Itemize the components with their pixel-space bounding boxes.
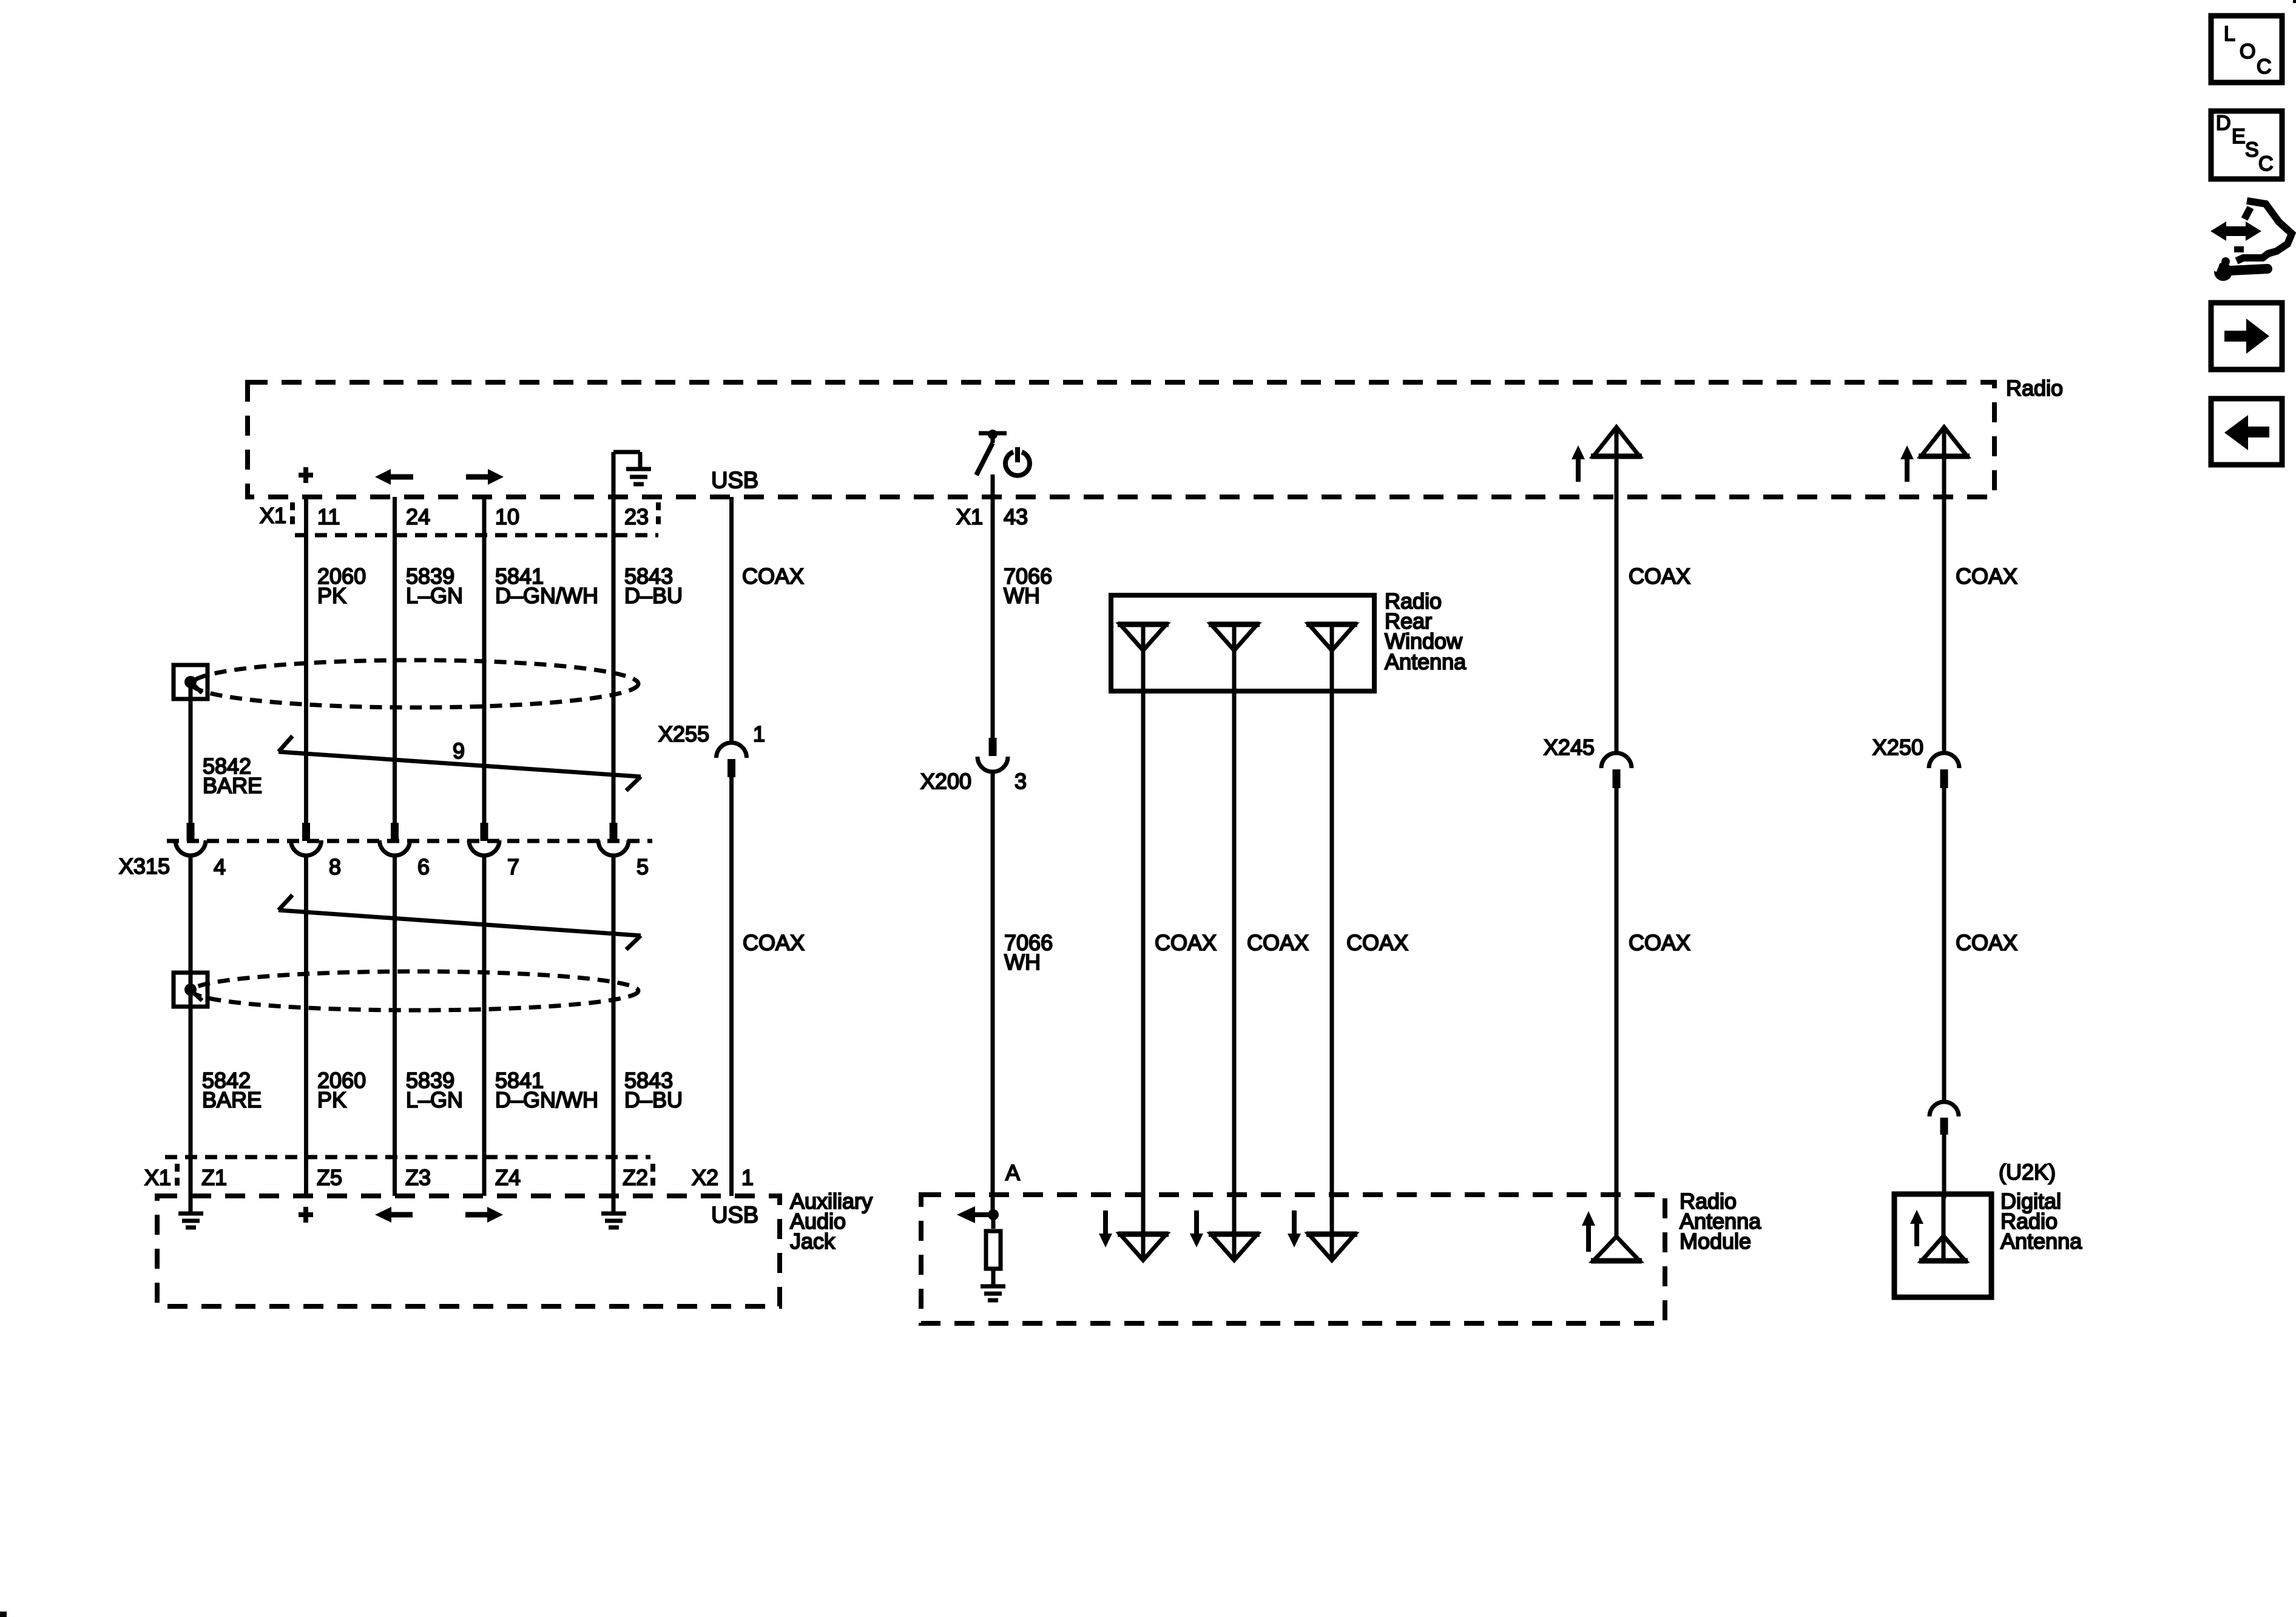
svg-text:Z5: Z5 [317, 1165, 342, 1190]
wire COAX X250 lower segment [1942, 1135, 1947, 1198]
connector X315 pin 4 [175, 823, 226, 879]
svg-text:43: 43 [1004, 504, 1028, 529]
wire COAX X250 upper segment [1942, 427, 1947, 755]
connector X1 strip (aux jack) dashed line [165, 1155, 650, 1160]
audio right arrow symbol (radio) [466, 469, 504, 485]
page corner mark bottom-left [0, 1612, 7, 1617]
wire 7066 WH upper segment [991, 474, 995, 739]
svg-text:COAX: COAX [1346, 930, 1408, 955]
junction node A [988, 1209, 999, 1220]
svg-text:O: O [2240, 40, 2255, 63]
svg-text:D–BU: D–BU [624, 583, 683, 608]
svg-text:8: 8 [329, 854, 341, 879]
svg-text:11: 11 [317, 504, 340, 529]
svg-text:X245: X245 [1544, 735, 1595, 760]
svg-text:BARE: BARE [203, 773, 262, 798]
shield node dot 2 [184, 984, 197, 996]
svg-text:D: D [2216, 112, 2231, 135]
svg-text:E: E [2232, 125, 2246, 148]
svg-text:3: 3 [1015, 769, 1027, 794]
antenna wire 2 [1232, 624, 1237, 1261]
svg-text:5: 5 [636, 854, 649, 879]
antenna mast symbol (radio, X245 col) [1591, 427, 1642, 456]
audio left arrow symbol (radio) [375, 469, 413, 485]
svg-text:Antenna: Antenna [2001, 1229, 2082, 1254]
connector X315 pin 8 [291, 823, 342, 879]
connector X1 strip tick right [656, 502, 661, 529]
svg-text:COAX: COAX [1629, 564, 1690, 589]
svg-text:D–GN/WH: D–GN/WH [495, 1087, 598, 1112]
wire 7066 WH lower segment [991, 771, 995, 1215]
svg-text:Antenna: Antenna [1385, 649, 1467, 674]
svg-text:X315: X315 [119, 854, 170, 879]
sidebar icon connector repair (double arrow, connector outline, wrench) [2204, 201, 2292, 281]
svg-text:PK: PK [317, 1087, 346, 1112]
rear window antenna element 1 [1118, 624, 1169, 650]
shield ellipse 1 [192, 660, 638, 707]
wire 5842 BARE lower segment [189, 855, 193, 1213]
svg-text:X1: X1 [956, 504, 983, 529]
svg-text:L: L [2224, 22, 2235, 46]
up arrow (digital radio antenna) [1910, 1210, 1923, 1246]
wire USB COAX lower segment [729, 777, 734, 1196]
module antenna terminal 1 [1118, 1234, 1169, 1260]
wire USB COAX upper segment [729, 497, 734, 744]
svg-text:COAX: COAX [1247, 930, 1309, 955]
ground symbol (aux Z1) [178, 1214, 203, 1227]
wire 5839 L-GN upper segment [393, 497, 397, 824]
module antenna terminal 3 [1306, 1234, 1357, 1260]
connector X315 pin 6 [380, 823, 430, 879]
connector X255 [717, 743, 747, 777]
svg-text:4: 4 [214, 854, 226, 879]
module antenna terminal 2 [1209, 1234, 1260, 1260]
shield drain stub 1 [191, 682, 202, 693]
wire COAX X250 mid segment [1942, 788, 1947, 1103]
connector X1 strip (aux) tick left [175, 1164, 180, 1190]
svg-text:Z2: Z2 [623, 1165, 648, 1190]
antenna wire 1 [1141, 624, 1146, 1261]
wire 2060 PK lower segment [304, 855, 308, 1196]
wire 5841 D-GN/WH upper segment [482, 497, 487, 824]
svg-text:1: 1 [753, 721, 765, 746]
svg-text:S: S [2245, 138, 2259, 161]
sidebar icon box arrow right [2211, 303, 2282, 370]
ground symbol (antenna module) [981, 1286, 1005, 1300]
connector X315 strip dashed line [167, 839, 652, 843]
down arrow (module ant 2) [1190, 1210, 1203, 1247]
svg-text:L–GN: L–GN [406, 583, 463, 608]
svg-text:23: 23 [624, 504, 649, 529]
twisted pair symbol 1 [279, 736, 641, 791]
shield termination square 1 [174, 665, 208, 699]
svg-text:C: C [2257, 55, 2272, 78]
svg-text:X1: X1 [144, 1165, 171, 1190]
wire 5842 BARE upper segment [189, 682, 193, 824]
page corner mark top-right [2293, 0, 2296, 3]
svg-text:COAX: COAX [743, 930, 805, 955]
svg-text:Module: Module [1680, 1229, 1751, 1254]
down arrow (module ant 3) [1288, 1210, 1301, 1247]
wire COAX X245 upper segment [1615, 427, 1619, 755]
svg-text:7: 7 [507, 854, 519, 879]
svg-text:COAX: COAX [742, 564, 804, 589]
svg-text:USB: USB [711, 468, 758, 493]
connector X1 strip (aux) tick right [650, 1164, 655, 1190]
svg-text:1: 1 [741, 1165, 754, 1190]
svg-text:9: 9 [453, 738, 465, 763]
Radio Rear Window Antenna box [1111, 595, 1374, 691]
wire 5843 D-BU upper segment [612, 497, 616, 824]
svg-text:6: 6 [417, 854, 430, 879]
svg-text:Radio: Radio [2006, 376, 2063, 400]
shield termination square 2 [174, 973, 208, 1007]
svg-text:X2: X2 [692, 1165, 718, 1190]
sidebar icon box arrow left [2211, 399, 2282, 465]
svg-text:COAX: COAX [1956, 930, 2017, 955]
twisted pair symbol 2 [279, 895, 641, 950]
up arrow (module right) [1582, 1211, 1595, 1252]
connector X200 [977, 738, 1008, 772]
svg-text:24: 24 [406, 504, 430, 529]
svg-text:Z1: Z1 [201, 1165, 227, 1190]
rear window antenna element 3 [1306, 624, 1357, 650]
svg-text:PK: PK [317, 583, 346, 608]
wire COAX X245 lower segment [1615, 788, 1619, 1237]
down arrow (module ant 1) [1099, 1210, 1112, 1247]
svg-text:USB: USB [711, 1203, 758, 1228]
rear window antenna element 2 [1209, 624, 1260, 650]
svg-text:COAX: COAX [1155, 930, 1217, 955]
svg-text:Z4: Z4 [495, 1165, 521, 1190]
svg-text:COAX: COAX [1956, 564, 2017, 589]
mute arrow (module) [957, 1206, 993, 1223]
up arrow (radio X250 col) [1900, 445, 1914, 482]
inline connector (X250 coax) [1930, 1102, 1959, 1135]
connector X315 pin 5 [598, 823, 649, 879]
polarity + symbol (radio) [299, 467, 313, 483]
svg-text:L–GN: L–GN [406, 1087, 463, 1112]
sidebar icon box DESC [2211, 111, 2282, 179]
connector X245 [1601, 753, 1632, 788]
svg-text:D–GN/WH: D–GN/WH [495, 583, 598, 608]
svg-text:X1: X1 [260, 503, 286, 528]
shield node dot 1 [184, 676, 197, 688]
connector X1 strip (radio left) dashed line [295, 533, 658, 538]
svg-text:A: A [1005, 1160, 1020, 1185]
power switch symbol (radio) [976, 430, 1007, 475]
wire 5839 L-GN lower segment [393, 855, 397, 1196]
svg-text:(U2K): (U2K) [1999, 1160, 2056, 1184]
connector X250 [1929, 753, 1959, 788]
connector X1 strip tick left [290, 502, 295, 529]
svg-text:COAX: COAX [1629, 930, 1690, 955]
svg-text:BARE: BARE [202, 1087, 262, 1112]
Radio Antenna Module dashed box [921, 1195, 1665, 1323]
power icon [1005, 447, 1030, 476]
up arrow (radio X245 col) [1572, 445, 1585, 482]
ground symbol (aux Z2) [601, 1214, 626, 1227]
wire 2060 PK upper segment [304, 497, 308, 824]
svg-text:X250: X250 [1872, 735, 1923, 760]
wire 5843 D-BU lower segment [612, 855, 616, 1213]
antenna wire 3 [1330, 624, 1334, 1261]
Digital Radio Antenna box [1894, 1194, 1991, 1297]
ground symbol (radio pin 23) [613, 452, 651, 497]
svg-text:WH: WH [1004, 950, 1041, 974]
svg-text:C: C [2258, 152, 2274, 175]
antenna mast symbol (radio, X250 col) [1919, 427, 1970, 456]
shield ellipse 2 [192, 971, 638, 1010]
connector X315 pin 7 [469, 823, 519, 879]
svg-text:D–BU: D–BU [624, 1087, 683, 1112]
svg-text:Jack: Jack [790, 1229, 836, 1254]
Radio component dashed box [248, 382, 1994, 497]
resistor R (antenna module) [986, 1215, 1001, 1286]
audio right arrow symbol (aux Z4) [465, 1207, 503, 1223]
sidebar icon box LOC [2211, 16, 2282, 83]
antenna mast symbol (module) [1591, 1237, 1642, 1261]
antenna mast symbol (digital radio antenna) [1919, 1197, 1968, 1261]
Auxiliary Audio Jack dashed box [157, 1196, 780, 1306]
audio left arrow symbol (aux Z3) [375, 1207, 413, 1223]
svg-text:X255: X255 [658, 721, 709, 746]
polarity + symbol (aux Z5) [299, 1207, 313, 1223]
svg-text:X200: X200 [920, 769, 971, 794]
svg-text:Z3: Z3 [405, 1165, 431, 1190]
wire 5841 D-GN/WH lower segment [482, 855, 487, 1196]
svg-text:10: 10 [495, 504, 519, 529]
svg-text:WH: WH [1004, 583, 1040, 608]
shield drain stub 2 [191, 990, 202, 1001]
